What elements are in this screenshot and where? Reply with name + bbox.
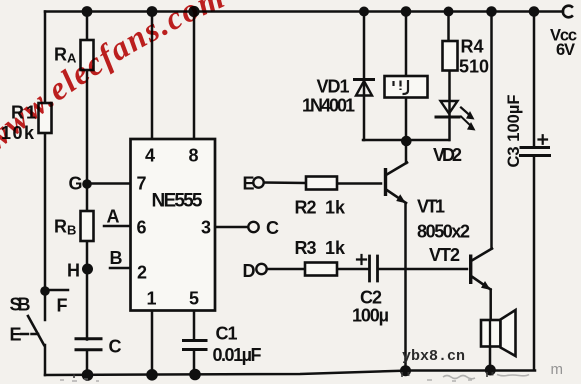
svg-text:m: m	[551, 361, 564, 378]
svg-text:1: 1	[147, 289, 157, 309]
svg-text:1k: 1k	[325, 238, 346, 258]
svg-text:6V: 6V	[556, 41, 575, 59]
svg-text:6: 6	[137, 218, 147, 238]
svg-text:E: E	[243, 174, 255, 194]
svg-text:VT2: VT2	[429, 245, 460, 265]
svg-text:8050x2: 8050x2	[417, 222, 470, 242]
svg-text:7: 7	[137, 174, 147, 194]
svg-text:C: C	[266, 218, 279, 238]
svg-text:C: C	[109, 337, 122, 357]
svg-text:VD1: VD1	[317, 77, 350, 97]
svg-text:1k: 1k	[325, 198, 346, 218]
svg-text:VT1: VT1	[417, 197, 445, 217]
svg-text:1N4001: 1N4001	[302, 96, 355, 116]
svg-text:F: F	[57, 296, 68, 316]
svg-text:C1: C1	[216, 324, 238, 344]
svg-text:ybx8.cn: ybx8.cn	[402, 348, 465, 365]
svg-text:4: 4	[145, 146, 155, 166]
svg-text:3: 3	[201, 218, 211, 238]
svg-text:5: 5	[189, 289, 199, 309]
svg-text:8: 8	[189, 146, 199, 166]
svg-text:C2: C2	[360, 288, 382, 308]
svg-text:510: 510	[459, 57, 489, 77]
svg-text:R2: R2	[295, 198, 317, 218]
svg-text:G: G	[69, 174, 83, 194]
svg-text:SB: SB	[10, 295, 31, 315]
svg-text:R: R	[54, 45, 67, 65]
svg-text:R3: R3	[295, 238, 317, 258]
svg-text:R4: R4	[461, 37, 484, 57]
svg-text:C3 100µF: C3 100µF	[505, 95, 523, 168]
svg-text:D: D	[243, 261, 256, 281]
svg-text:100µ: 100µ	[352, 306, 389, 326]
svg-text:B: B	[67, 223, 76, 238]
svg-text:0.01µF: 0.01µF	[213, 345, 262, 365]
svg-text:NE555: NE555	[152, 191, 203, 212]
svg-text:A: A	[107, 207, 120, 227]
svg-text:2: 2	[137, 263, 147, 283]
svg-text:VD2: VD2	[433, 145, 462, 165]
svg-text:R: R	[54, 217, 67, 237]
svg-text:E: E	[10, 325, 22, 345]
svg-text:B: B	[110, 248, 123, 268]
svg-text:H: H	[67, 261, 80, 281]
